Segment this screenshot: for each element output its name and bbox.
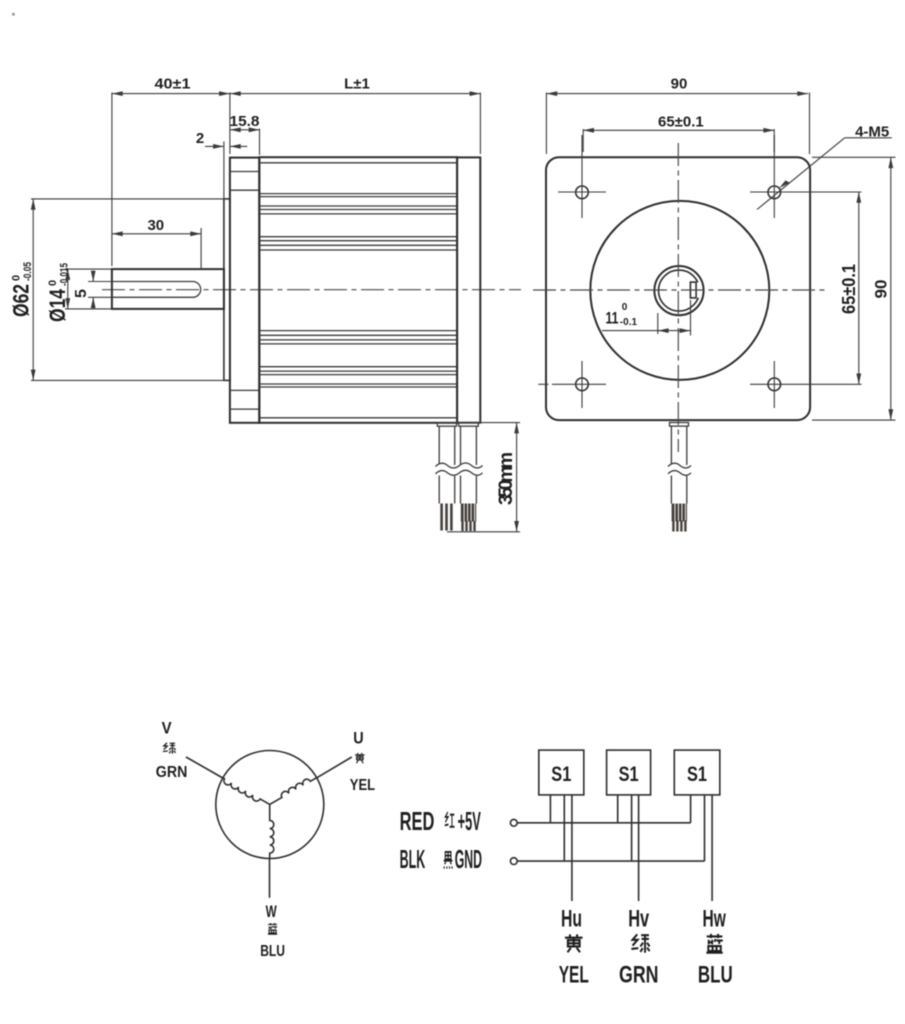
- svg-text:BLK: BLK: [400, 844, 426, 874]
- hole top-right: [750, 135, 862, 218]
- break wave: [435, 463, 483, 477]
- dimension 15.8: [230, 113, 260, 155]
- front boss ring (2mm step): [224, 199, 230, 381]
- flange corner line bottom1: [230, 389, 259, 391]
- cable 1 tube: [439, 426, 455, 503]
- flange corner line top2: [230, 189, 259, 191]
- shaft outer circle: [654, 266, 703, 315]
- svg-text:-0.05: -0.05: [22, 262, 34, 281]
- hole top-left: [558, 135, 606, 218]
- svg-text:350mm: 350mm: [496, 452, 517, 505]
- dimension 30: [112, 217, 201, 270]
- svg-text:S1: S1: [687, 762, 707, 786]
- svg-text:Ø62: Ø62: [9, 284, 34, 317]
- svg-text:GND: GND: [455, 844, 482, 874]
- svg-text:0: 0: [622, 302, 628, 313]
- horizontal centerline: [533, 289, 828, 291]
- svg-text:65±0.1: 65±0.1: [839, 264, 859, 314]
- dimension 65±0.1 top: [583, 114, 774, 153]
- cable2 exposed wires: [461, 504, 476, 522]
- dimension 90 right: [872, 157, 891, 420]
- svg-text:+5V: +5V: [458, 806, 482, 836]
- svg-text:90: 90: [671, 76, 688, 93]
- coil V (upper-left): [221, 778, 270, 808]
- label 4-M5 with leader: [757, 124, 892, 210]
- dimension Ø14: [45, 263, 111, 322]
- shaft body: [112, 269, 224, 309]
- svg-text:Hv: Hv: [628, 906, 649, 933]
- sensor box S1 #1: [539, 750, 584, 795]
- label 蓝: [706, 934, 722, 953]
- front flange square: [546, 157, 810, 420]
- svg-text:Hu: Hu: [561, 906, 582, 933]
- terminal GND: [510, 858, 517, 865]
- label 绿 green char: [163, 743, 176, 754]
- svg-text:2: 2: [196, 130, 204, 147]
- hole bottom-left: [538, 361, 606, 408]
- lead V: [186, 757, 223, 778]
- svg-text:GRN: GRN: [156, 764, 188, 781]
- cable 2 tube: [461, 426, 477, 503]
- label 黄: [565, 934, 583, 952]
- svg-text:U: U: [353, 729, 363, 748]
- coil U (upper-right): [268, 774, 317, 804]
- svg-text:L±1: L±1: [344, 76, 370, 93]
- +5V bus wire: [517, 822, 690, 824]
- svg-text:5: 5: [73, 289, 90, 298]
- cable1 exposed wires: [442, 504, 452, 531]
- motor body outline: [259, 157, 457, 423]
- dimension 90 top: [546, 76, 809, 155]
- dimension 5 (keyway): [73, 271, 112, 309]
- svg-text:15.8: 15.8: [230, 113, 260, 130]
- sensor box S1 #2: [607, 750, 651, 795]
- centerline side view: [102, 289, 521, 291]
- svg-text:30: 30: [147, 217, 164, 234]
- body ribs top: [259, 194, 457, 250]
- svg-text:Ø14: Ø14: [45, 288, 70, 322]
- motor circle: [590, 201, 769, 380]
- label 绿: [631, 934, 649, 952]
- label 蓝 blue char: [268, 923, 277, 934]
- dimension 350mm: [447, 423, 520, 532]
- svg-text:GRN: GRN: [619, 962, 659, 989]
- svg-text:-0.1: -0.1: [620, 317, 638, 328]
- svg-text:W: W: [266, 902, 278, 921]
- front cable collar: [670, 423, 689, 427]
- coil W (down): [270, 804, 274, 858]
- flange corner line bottom2: [230, 408, 259, 410]
- terminal +5V: [510, 819, 517, 826]
- svg-text:0: 0: [11, 275, 23, 281]
- svg-text:BLU: BLU: [698, 962, 733, 989]
- svg-text:RED: RED: [400, 806, 435, 836]
- svg-text:0: 0: [47, 280, 59, 286]
- dimension L±1: [230, 76, 481, 155]
- keyway front: [690, 282, 701, 297]
- front cable break wave: [668, 463, 691, 476]
- lead U: [317, 757, 352, 778]
- svg-text:V: V: [162, 719, 173, 738]
- svg-text:S1: S1: [551, 762, 571, 786]
- svg-text:S1: S1: [619, 762, 639, 786]
- front cable exposed wires: [672, 504, 687, 522]
- svg-text:40±1: 40±1: [155, 76, 191, 93]
- GND bus wire: [517, 860, 704, 862]
- box1 pins: [550, 795, 572, 901]
- svg-text:YEL: YEL: [559, 962, 589, 989]
- stray dot top-left: [12, 13, 15, 16]
- lead W: [269, 859, 271, 898]
- svg-text:11: 11: [606, 309, 619, 328]
- sensor box S1 #3: [674, 750, 720, 795]
- label 黄 yellow char: [355, 753, 365, 763]
- svg-text:65±0.1: 65±0.1: [658, 114, 704, 131]
- svg-text:-0.015: -0.015: [59, 263, 71, 286]
- hole bottom-right: [750, 361, 862, 408]
- svg-text:Hw: Hw: [703, 906, 727, 933]
- cable collar left: [437, 423, 456, 426]
- right side extension lines: [812, 156, 896, 158]
- shaft inner circle: [659, 270, 700, 311]
- body top seam: [259, 162, 457, 164]
- cable collar right: [459, 423, 479, 426]
- svg-text:BLU: BLU: [260, 943, 285, 960]
- body ribs bottom: [259, 331, 457, 387]
- keyway slot side view: [112, 282, 201, 298]
- body bottom seam: [259, 417, 457, 419]
- flange plate: [230, 158, 259, 423]
- dimension 11 keyway width: [602, 300, 691, 336]
- vertical centerline: [677, 143, 679, 452]
- svg-text:YEL: YEL: [350, 777, 375, 794]
- box3 pins: [691, 795, 713, 901]
- box2 pins: [618, 795, 639, 901]
- dimension Ø62: [9, 199, 229, 381]
- svg-text:90: 90: [872, 280, 891, 299]
- dimension 65±0.1 right: [839, 192, 859, 384]
- winding circle: [216, 751, 324, 859]
- rear end cap: [457, 157, 480, 422]
- flange corner line top1: [230, 171, 259, 173]
- front cable tube: [671, 426, 686, 504]
- dimension 2: [196, 130, 247, 199]
- dimension 40±1: [112, 76, 230, 267]
